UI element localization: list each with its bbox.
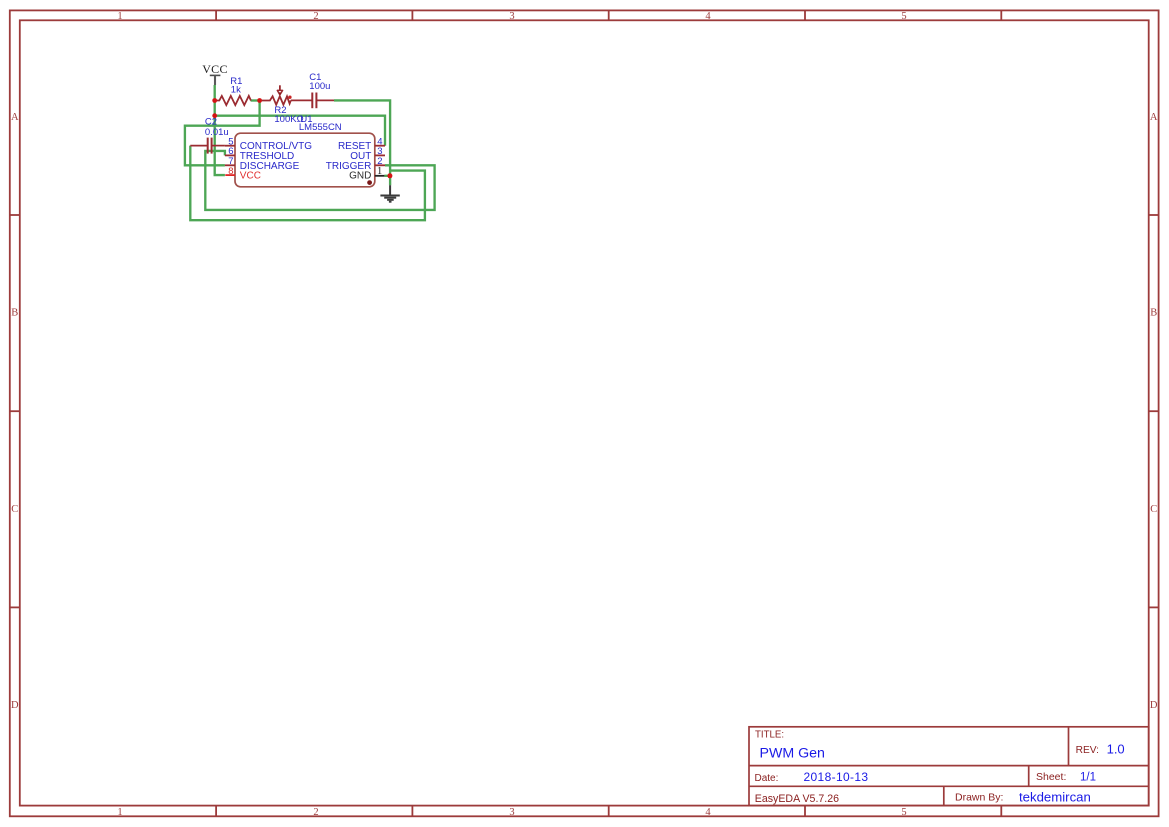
wire GND pin short green bbox=[384, 175, 390, 177]
junction node at R1 left / VCC bbox=[212, 98, 217, 103]
net label VCC bbox=[202, 62, 228, 76]
R2 wiper arrowhead bbox=[277, 90, 282, 95]
wire VCC to RESET bbox=[215, 116, 385, 146]
R2 wiper dot bbox=[288, 96, 291, 99]
svg-text:4: 4 bbox=[705, 807, 711, 818]
svg-text:5: 5 bbox=[901, 11, 906, 22]
svg-text:4: 4 bbox=[705, 11, 711, 22]
svg-text:Drawn By:: Drawn By: bbox=[955, 792, 1003, 804]
svg-text:EasyEDA V5.7.26: EasyEDA V5.7.26 bbox=[755, 793, 839, 805]
svg-text:Sheet:: Sheet: bbox=[1036, 771, 1066, 783]
C2 leads (red) bbox=[190, 145, 225, 147]
svg-text:GND: GND bbox=[349, 171, 371, 182]
svg-text:tekdemircan: tekdemircan bbox=[1019, 789, 1091, 804]
svg-text:VCC: VCC bbox=[240, 171, 261, 182]
resistor R2 (potentiometer) bbox=[260, 85, 291, 104]
svg-text:3: 3 bbox=[509, 11, 514, 22]
svg-text:2018-10-13: 2018-10-13 bbox=[804, 770, 869, 784]
U1 VCC pin 8 stub (red) bbox=[225, 174, 235, 176]
title block text bbox=[755, 730, 1125, 805]
svg-text:D: D bbox=[11, 700, 19, 711]
VCC power symbol bbox=[210, 75, 221, 85]
U1 pin stubs left bbox=[225, 146, 235, 166]
svg-text:1: 1 bbox=[117, 11, 122, 22]
wire R1 right to junction bbox=[251, 99, 260, 101]
svg-text:8: 8 bbox=[228, 166, 233, 177]
wire VCC rail vertical to pin 8 bbox=[215, 85, 225, 175]
svg-text:TITLE:: TITLE: bbox=[755, 730, 784, 741]
capacitor C1 bbox=[312, 93, 316, 109]
svg-text:3: 3 bbox=[509, 807, 514, 818]
svg-text:C: C bbox=[11, 504, 18, 515]
svg-text:PWM Gen: PWM Gen bbox=[760, 745, 825, 761]
svg-text:VCC: VCC bbox=[202, 62, 228, 76]
wire junction to DISCHARGE pin 7 bbox=[185, 101, 260, 166]
svg-text:B: B bbox=[11, 308, 18, 319]
junction node GND bbox=[387, 173, 392, 178]
svg-text:1: 1 bbox=[377, 166, 382, 177]
svg-text:C: C bbox=[1150, 504, 1157, 515]
op-amp / IC U1 LM555CN body bbox=[235, 133, 375, 187]
svg-text:1k: 1k bbox=[231, 85, 241, 96]
resistor R1 bbox=[215, 96, 251, 105]
wire TRIGGER to THRESHOLD loop bbox=[205, 151, 434, 210]
svg-text:LM555CN: LM555CN bbox=[299, 122, 342, 133]
svg-text:1/1: 1/1 bbox=[1080, 772, 1096, 784]
svg-text:5: 5 bbox=[901, 807, 906, 818]
wire R2 to C1 (red) bbox=[291, 99, 334, 101]
svg-text:100u: 100u bbox=[309, 81, 330, 92]
svg-text:2: 2 bbox=[313, 11, 318, 22]
U1 pin stubs right bbox=[375, 146, 385, 166]
svg-text:2: 2 bbox=[313, 807, 318, 818]
capacitor C2 bbox=[208, 138, 212, 154]
junction node R1/R2/pin7 bbox=[257, 98, 262, 103]
wire C2 left to GND node loop bbox=[190, 146, 425, 221]
svg-text:A: A bbox=[11, 112, 19, 123]
svg-text:1: 1 bbox=[117, 807, 122, 818]
svg-text:1.0: 1.0 bbox=[1107, 741, 1125, 756]
svg-text:D: D bbox=[1150, 700, 1158, 711]
title block bbox=[749, 727, 1149, 806]
U1 pin1 marker dot bbox=[367, 180, 372, 185]
svg-text:0.01u: 0.01u bbox=[205, 127, 229, 138]
ground symbol bbox=[380, 185, 399, 202]
U1 GND pin stub (black) bbox=[375, 175, 385, 177]
svg-text:REV:: REV: bbox=[1076, 745, 1099, 756]
svg-text:B: B bbox=[1150, 308, 1157, 319]
junction node VCC/RESET tap bbox=[212, 113, 217, 118]
wire C1 right to GND node bbox=[334, 100, 390, 185]
svg-text:A: A bbox=[1150, 112, 1158, 123]
svg-text:Date:: Date: bbox=[755, 773, 779, 784]
